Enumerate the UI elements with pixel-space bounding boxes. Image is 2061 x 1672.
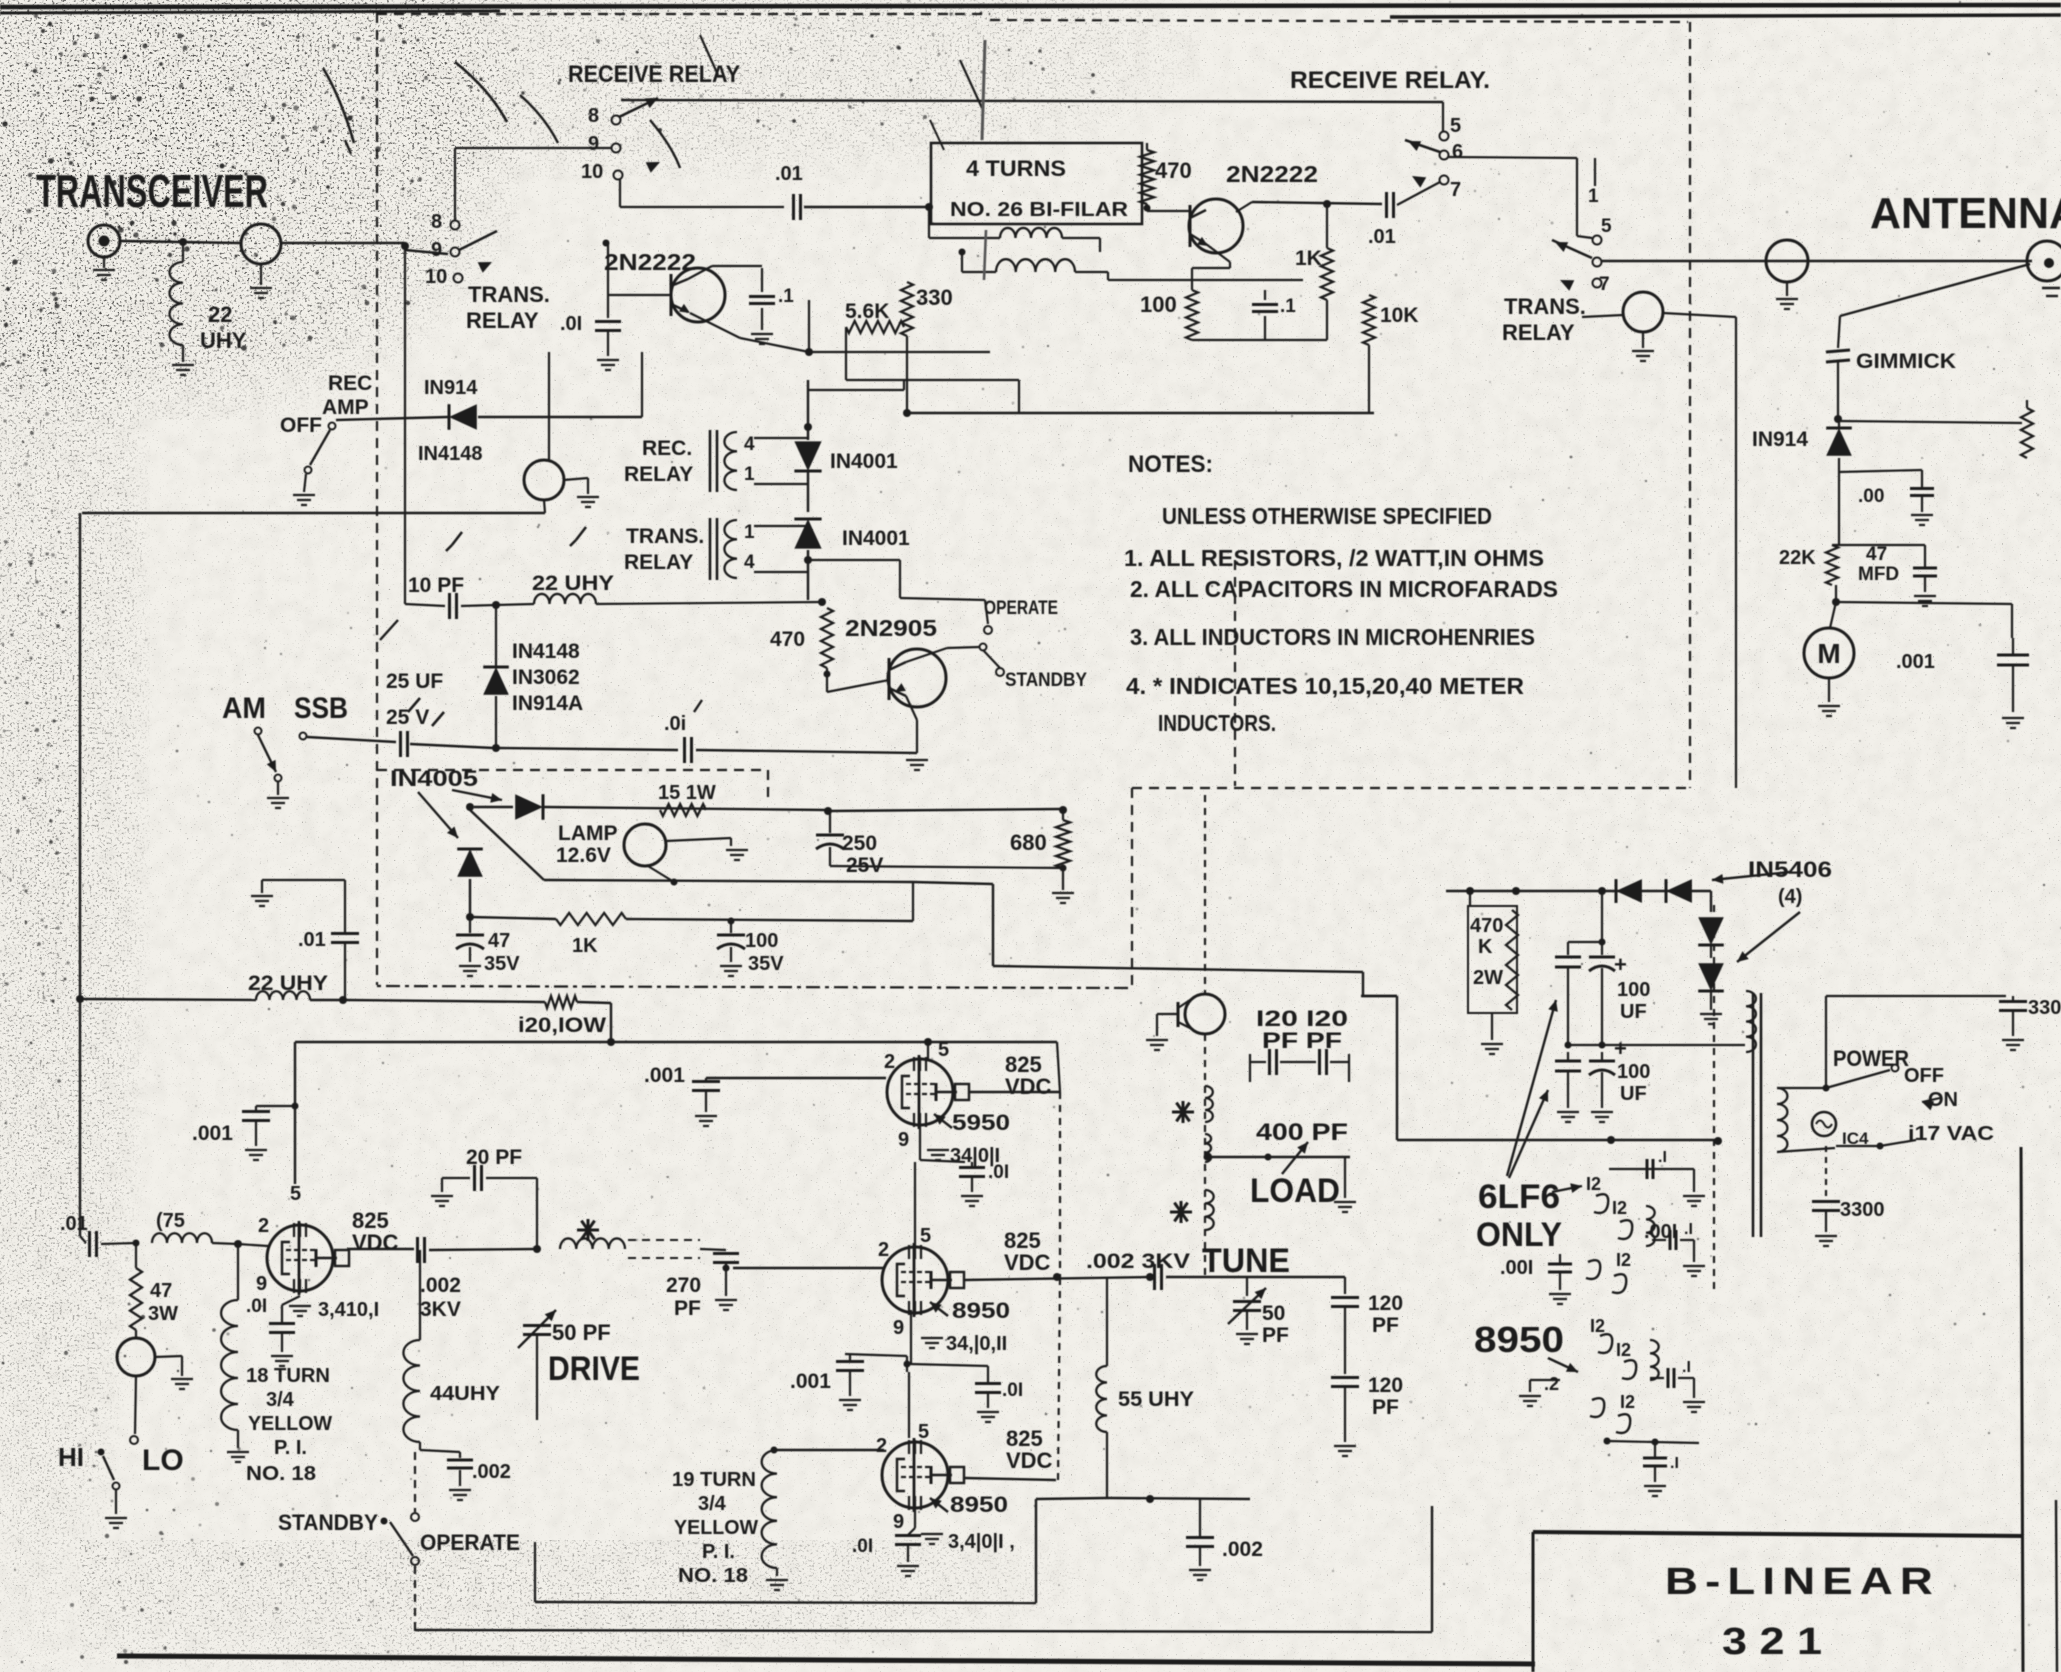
diagonal wire from node bbox=[470, 810, 544, 880]
scan speckle dots clusters bbox=[269, 22, 271, 24]
svg-text:120: 120 bbox=[1368, 1292, 1403, 1315]
wires linking relay coils to diodes bbox=[754, 437, 808, 439]
svg-text:INDUCTORS.: INDUCTORS. bbox=[1158, 710, 1276, 736]
ground of feedthrough bbox=[1786, 282, 1788, 296]
Q2 emitter wire down bbox=[1206, 244, 1230, 262]
wire into driver grid bbox=[238, 1244, 268, 1246]
fuse circle bbox=[1812, 1112, 1836, 1136]
arrow to lower diodes bbox=[1737, 912, 1800, 962]
resistor 100 base bias bbox=[1186, 290, 1198, 340]
svg-text:18 TURN: 18 TURN bbox=[246, 1365, 330, 1387]
cap right cluster bbox=[1669, 1230, 1672, 1250]
ground below 680 bbox=[1062, 868, 1064, 890]
ground 34101 driver bbox=[289, 1305, 311, 1307]
svg-text:+: + bbox=[1614, 952, 1627, 977]
svg-text:.I: .I bbox=[1658, 1149, 1667, 1166]
tube1 anode wire bbox=[969, 1091, 1060, 1093]
wire .01 cap to 4-turns node bbox=[804, 206, 929, 208]
svg-text:6: 6 bbox=[1452, 141, 1463, 163]
coil ticks 2 bbox=[1205, 1190, 1214, 1230]
page top border line bbox=[0, 5, 2061, 7]
node 10pf bbox=[492, 601, 500, 609]
ground below meter bbox=[1828, 678, 1830, 702]
svg-text:25 UF: 25 UF bbox=[386, 670, 443, 693]
ps top rail bbox=[1446, 890, 1711, 892]
antenna wire main bbox=[1602, 260, 2032, 262]
node junction on input wire bbox=[179, 238, 187, 246]
svg-text:IN914A: IN914A bbox=[512, 692, 583, 715]
meter M circle bbox=[1830, 602, 1836, 628]
svg-text:22K: 22K bbox=[1779, 547, 1816, 569]
node on collector wire bbox=[1323, 200, 1331, 208]
svg-text:4. * INDICATES 10,15,20,40 MET: 4. * INDICATES 10,15,20,40 METER bbox=[1126, 673, 1524, 699]
svg-text:3W: 3W bbox=[148, 1303, 178, 1325]
capacitor 50 PF drive variable bbox=[523, 1324, 551, 1327]
tube1 01 cap right bbox=[920, 1160, 965, 1162]
svg-text:AM: AM bbox=[222, 692, 266, 725]
check marks bbox=[452, 532, 462, 545]
arrow to diodes bbox=[1712, 872, 1790, 880]
svg-text:.0I: .0I bbox=[988, 1162, 1009, 1183]
svg-text:MFD: MFD bbox=[1858, 564, 1899, 585]
Q1 emitter wire to node bbox=[690, 313, 740, 338]
long wire to left rail bbox=[82, 512, 545, 514]
wire to .001 cap right bbox=[1836, 602, 2012, 604]
wire to operate contact bbox=[808, 559, 900, 561]
cap .1 bottom with ground bbox=[1643, 1457, 1667, 1460]
phono jack connector bbox=[241, 224, 281, 264]
svg-text:.001: .001 bbox=[192, 1122, 233, 1145]
diode stack vertical bbox=[1710, 891, 1712, 912]
vertical from power switch up bbox=[1825, 996, 1827, 1088]
socket cluster 8950 lower bbox=[1590, 1398, 1604, 1417]
ground of J1 bbox=[103, 257, 105, 268]
wire node down to 10PF row bbox=[404, 246, 406, 604]
arrow to vertical diode bbox=[418, 792, 458, 838]
svg-text:100: 100 bbox=[745, 930, 778, 952]
node at x405 bbox=[401, 242, 409, 250]
antenna relay arrow 7 bbox=[1560, 280, 1574, 291]
svg-text:8: 8 bbox=[588, 105, 599, 127]
wire input to coil bbox=[101, 1243, 136, 1244]
svg-text:5: 5 bbox=[920, 1225, 931, 1247]
diode 1N5406 a bbox=[1616, 879, 1642, 903]
svg-text:.001: .001 bbox=[644, 1064, 685, 1087]
svg-text:NO. 18: NO. 18 bbox=[678, 1565, 748, 1587]
svg-text:LAMP: LAMP bbox=[558, 822, 618, 845]
svg-text:.0I: .0I bbox=[852, 1536, 873, 1557]
svg-text:8950: 8950 bbox=[952, 1298, 1010, 1323]
power tube V4 bottom 8950 bbox=[882, 1442, 948, 1508]
svg-text:2: 2 bbox=[884, 1051, 895, 1073]
trans relay coil circle right bbox=[1623, 292, 1663, 332]
dashed enclosure box bottom edge left part bbox=[377, 986, 1132, 988]
svg-text:IN5406: IN5406 bbox=[1748, 857, 1832, 882]
resistor 470 second bbox=[821, 608, 833, 668]
svg-text:10: 10 bbox=[425, 266, 447, 288]
contact 7 arrow bbox=[1412, 176, 1426, 188]
svg-text:3 2 1: 3 2 1 bbox=[1722, 1621, 1822, 1663]
bracket to ground left bbox=[262, 879, 345, 881]
svg-text:OFF: OFF bbox=[280, 414, 322, 437]
svg-text:.002: .002 bbox=[1222, 1538, 1263, 1561]
svg-text:19 TURN: 19 TURN bbox=[672, 1469, 756, 1491]
svg-text:TRANSCEIVER: TRANSCEIVER bbox=[36, 165, 268, 217]
svg-text:120: 120 bbox=[1368, 1374, 1403, 1397]
power switch bbox=[1823, 1085, 1830, 1092]
diode 1N4001 lower bbox=[794, 519, 821, 549]
driver grid coil 18 turn bbox=[237, 1244, 239, 1300]
svg-text:PF PF: PF PF bbox=[1262, 1028, 1342, 1053]
svg-text:6LF6: 6LF6 bbox=[1478, 1178, 1560, 1216]
svg-text:TRANS.: TRANS. bbox=[626, 525, 704, 548]
svg-text:.002 3KV: .002 3KV bbox=[1086, 1250, 1190, 1273]
svg-text:OFF: OFF bbox=[1904, 1065, 1944, 1087]
load coil ticks bbox=[1205, 1086, 1213, 1122]
svg-text:47: 47 bbox=[150, 1280, 172, 1302]
svg-text:IN4001: IN4001 bbox=[842, 527, 910, 550]
inductor 44UHY bbox=[419, 1255, 421, 1340]
arrows 6lf6 bbox=[1507, 1000, 1556, 1176]
capacitor .001 driver screen bbox=[256, 1105, 295, 1107]
svg-text:.1: .1 bbox=[1280, 296, 1296, 317]
wire 1k right up to rail bbox=[912, 882, 914, 921]
wire contact 9 to left vertical bbox=[455, 147, 612, 149]
svg-text:5950: 5950 bbox=[952, 1110, 1010, 1135]
tube3 grid wire bbox=[774, 1449, 884, 1451]
svg-text:4: 4 bbox=[744, 434, 755, 455]
capacitors 120PF stack bbox=[1344, 1277, 1346, 1294]
svg-text:OPERATE: OPERATE bbox=[984, 598, 1058, 619]
cap .1 top cluster bbox=[1609, 1168, 1694, 1170]
dashed vertical through load coil bbox=[1204, 795, 1206, 995]
node below 22K bbox=[1835, 585, 1837, 602]
asterisk load 2 bbox=[1170, 1211, 1192, 1214]
tune wire junctions bbox=[1146, 1273, 1154, 1281]
svg-text:.00: .00 bbox=[1858, 486, 1884, 507]
contact 8 blade with arrow bbox=[619, 98, 658, 117]
svg-text:RELAY: RELAY bbox=[624, 463, 693, 486]
svg-text:400 PF: 400 PF bbox=[1256, 1119, 1348, 1146]
svg-text:3. ALL INDUCTORS IN MICROHENRI: 3. ALL INDUCTORS IN MICROHENRIES bbox=[1130, 624, 1535, 650]
svg-text:IN4001: IN4001 bbox=[830, 450, 898, 473]
Q3 collector to switch bbox=[906, 648, 947, 662]
svg-text:4: 4 bbox=[744, 552, 755, 573]
svg-text:I2: I2 bbox=[1616, 1340, 1631, 1360]
svg-text:2N2222: 2N2222 bbox=[1226, 161, 1318, 187]
ground at lamp bbox=[726, 849, 748, 851]
svg-text:1K: 1K bbox=[572, 935, 598, 957]
svg-text:5: 5 bbox=[918, 1421, 929, 1443]
svg-text:7: 7 bbox=[1450, 179, 1461, 201]
arrow check near diode bbox=[380, 620, 398, 640]
antenna switch diagonal blade bbox=[1840, 264, 2030, 316]
anode bus down to tune bbox=[1059, 1092, 1061, 1277]
page right border line bbox=[2021, 1147, 2023, 1672]
svg-text:9: 9 bbox=[588, 133, 599, 155]
svg-text:IN914: IN914 bbox=[424, 377, 478, 399]
wire J1 to junction bbox=[120, 241, 240, 243]
470K 2W bleeder box bbox=[1468, 906, 1517, 1013]
svg-text:I2: I2 bbox=[1586, 1174, 1601, 1194]
node after 002 bbox=[533, 1245, 541, 1253]
Q2 collector wire to relay bbox=[1236, 202, 1252, 212]
svg-text:.2: .2 bbox=[1544, 1374, 1559, 1394]
ground marks at antenna jack bbox=[2042, 287, 2060, 289]
ground of load cap bbox=[1344, 1157, 1346, 1198]
resistor 1K right bbox=[1321, 248, 1333, 300]
svg-text:IN4148: IN4148 bbox=[418, 443, 483, 465]
svg-text:.00I: .00I bbox=[1500, 1257, 1533, 1279]
inductor 55UHY bbox=[1106, 1277, 1108, 1366]
inductor 22 UHY input shunt bbox=[182, 242, 184, 262]
svg-text:9: 9 bbox=[893, 1511, 904, 1533]
svg-text:I2: I2 bbox=[1620, 1392, 1635, 1412]
junction dot at winding bbox=[959, 249, 966, 256]
contact 6 blade arrow bbox=[1405, 140, 1440, 152]
svg-text:22: 22 bbox=[208, 302, 232, 327]
svg-text:OPERATE: OPERATE bbox=[420, 1530, 520, 1555]
capacitor .002 below 44uhy bbox=[419, 1442, 421, 1450]
svg-text:9: 9 bbox=[898, 1129, 909, 1151]
lower bus wire y413 bbox=[905, 412, 1374, 414]
svg-text:ONLY: ONLY bbox=[1476, 1216, 1562, 1254]
capacitor 100 35V bbox=[717, 934, 745, 937]
svg-text:34,|0,II: 34,|0,II bbox=[946, 1333, 1007, 1355]
svg-text:i17 VAC: i17 VAC bbox=[1908, 1123, 1994, 1145]
wire contact 6 to antenna relay bbox=[1448, 157, 1577, 158]
svg-text:680: 680 bbox=[1010, 830, 1047, 855]
resistor 470 pullup bbox=[1146, 143, 1148, 150]
wire from tune net to bottom rail bbox=[1036, 1498, 1107, 1499]
svg-text:2: 2 bbox=[878, 1239, 889, 1261]
svg-text:P. I.: P. I. bbox=[702, 1541, 735, 1563]
lower rail of lamp box bbox=[544, 880, 913, 882]
dashed enclosure box bottom edge right part bbox=[1132, 787, 1690, 789]
vertical from bus to contact 5 bbox=[1442, 102, 1444, 131]
resistor 5.6K bbox=[846, 321, 904, 333]
cap 8950 right bbox=[1667, 1368, 1670, 1388]
Q3 emitter down bbox=[906, 696, 917, 720]
tube3 anode wire bbox=[964, 1478, 1056, 1480]
svg-text:.1: .1 bbox=[778, 286, 794, 307]
rec relay coil drive circle bbox=[524, 460, 564, 500]
tube3 cathode arrow ground bbox=[930, 1498, 948, 1512]
arrow 8950 bbox=[1548, 1358, 1578, 1372]
dashed enclosure box mid vertical bbox=[1131, 788, 1133, 988]
svg-text:47: 47 bbox=[488, 930, 510, 952]
left rail vertical bbox=[79, 513, 81, 999]
svg-text:3/4: 3/4 bbox=[698, 1493, 727, 1515]
svg-text:VDC: VDC bbox=[1006, 1448, 1053, 1473]
svg-text:PF: PF bbox=[1262, 1324, 1289, 1347]
svg-text:47: 47 bbox=[1866, 544, 1887, 565]
capacitor 3300 bottom bbox=[1825, 1146, 1827, 1196]
standby operate switch bottom bbox=[411, 1513, 419, 1521]
node before 4 turns box bbox=[925, 203, 933, 211]
wire 470 to 2N2222 base bbox=[1146, 204, 1148, 211]
interstage inductor bbox=[560, 1238, 625, 1249]
svg-text:270: 270 bbox=[666, 1274, 701, 1297]
wire .01 to contact 7 bbox=[1397, 182, 1440, 205]
svg-text:.I: .I bbox=[1670, 1455, 1679, 1472]
dashed enclosure box left edge bbox=[376, 13, 378, 985]
svg-text:GIMMICK: GIMMICK bbox=[1856, 350, 1956, 373]
svg-text:RELAY: RELAY bbox=[466, 308, 539, 333]
ground below Q3 emitter bbox=[906, 759, 928, 761]
rec relay coil symbol bbox=[709, 430, 712, 492]
dashed lamp box top edge bbox=[377, 769, 768, 771]
coax connector J1 transceiver bbox=[88, 225, 120, 257]
diode 1N4001 upper bbox=[794, 441, 821, 471]
svg-text:1K: 1K bbox=[1295, 247, 1322, 270]
resistor 680 bbox=[1056, 820, 1070, 868]
driver anode wire bbox=[347, 1248, 414, 1250]
scan smear streak above box bbox=[982, 40, 985, 140]
svg-text:YELLOW: YELLOW bbox=[248, 1413, 332, 1435]
svg-text:3300: 3300 bbox=[2028, 997, 2061, 1019]
fuse wire right bbox=[1836, 1145, 1880, 1147]
dashed vertical near load network bbox=[1234, 560, 1236, 786]
svg-text:100: 100 bbox=[1617, 1061, 1650, 1083]
svg-text:RELAY: RELAY bbox=[624, 551, 693, 574]
svg-text:NO. 26 BI-FILAR: NO. 26 BI-FILAR bbox=[950, 199, 1129, 221]
hv secondary winding bbox=[1746, 991, 1756, 1052]
svg-text:.0I: .0I bbox=[246, 1296, 267, 1317]
svg-text:ANTENNA: ANTENNA bbox=[1870, 189, 2061, 238]
svg-text:50: 50 bbox=[1262, 1302, 1285, 1325]
cluster lower coils bbox=[1586, 1260, 1600, 1279]
svg-text:8950: 8950 bbox=[1474, 1319, 1564, 1360]
transistor Q3 2N2905 bbox=[888, 649, 946, 707]
svg-text:REC: REC bbox=[328, 372, 372, 395]
node left lamp circuit bbox=[466, 803, 474, 811]
node 47uf bbox=[466, 913, 474, 921]
svg-text:5.6K: 5.6K bbox=[845, 300, 889, 323]
svg-text:DRIVE: DRIVE bbox=[548, 1350, 640, 1388]
svg-text:10: 10 bbox=[581, 161, 603, 183]
wire top right of diode bbox=[808, 389, 904, 391]
svg-text:UF: UF bbox=[1620, 1083, 1647, 1105]
resistor 330 bbox=[901, 282, 913, 336]
transistor Q1 2N2222 left bbox=[671, 268, 725, 322]
rail step right bbox=[913, 882, 993, 884]
antenna jack connector bbox=[2027, 241, 2061, 281]
svg-text:NOTES:: NOTES: bbox=[1128, 451, 1213, 478]
svg-text:1. ALL RESISTORS, /2 WATT,IN O: 1. ALL RESISTORS, /2 WATT,IN OHMS bbox=[1124, 545, 1544, 571]
primary winding bbox=[1777, 1088, 1787, 1152]
resistor 10K bbox=[1363, 295, 1375, 345]
svg-text:HI: HI bbox=[58, 1442, 84, 1472]
transformer core bbox=[1752, 993, 1755, 1237]
svg-text:9: 9 bbox=[431, 239, 442, 261]
ground below 470K bbox=[1491, 1013, 1493, 1040]
filter cap bank lower pair 100UF bbox=[1555, 1060, 1581, 1063]
svg-text:TRANS.: TRANS. bbox=[1504, 294, 1586, 319]
receive relay bus top wire bbox=[621, 100, 1443, 102]
svg-text:9: 9 bbox=[256, 1273, 267, 1295]
node below gimmick bbox=[1834, 415, 1842, 423]
tube2 anode wire to tune bbox=[964, 1277, 1150, 1280]
svg-text:VDC: VDC bbox=[352, 1230, 399, 1255]
dashed enclosure box right edge bbox=[1689, 22, 1691, 788]
svg-text:IN914: IN914 bbox=[1752, 428, 1808, 451]
lamp bottom lead bbox=[648, 866, 674, 882]
Q1 collector wire bbox=[688, 266, 712, 279]
svg-text:P. I.: P. I. bbox=[274, 1437, 307, 1459]
grounds below caps bbox=[1557, 1111, 1579, 1113]
svg-text:22 UHY: 22 UHY bbox=[532, 572, 614, 595]
svg-text:35V: 35V bbox=[484, 953, 520, 975]
svg-text:2N2905: 2N2905 bbox=[845, 615, 937, 641]
wire contact 8 up to receive relay bus bbox=[454, 148, 456, 221]
ground below HI LO bbox=[115, 1490, 117, 1514]
contact 10 arrow blade bbox=[646, 162, 660, 173]
resistor 47 3W bbox=[135, 1243, 137, 1268]
svg-text:15 1W: 15 1W bbox=[658, 782, 716, 804]
ground below relay coil bbox=[1642, 332, 1644, 348]
svg-text:2. ALL CAPACITORS IN MICROFARA: 2. ALL CAPACITORS IN MICROFARADS bbox=[1130, 576, 1558, 602]
ground below off switch bbox=[304, 474, 306, 492]
off switch blade bbox=[310, 430, 330, 465]
node at 250uf bbox=[824, 807, 832, 815]
svg-text:.01: .01 bbox=[298, 929, 326, 951]
svg-text:UHY: UHY bbox=[200, 328, 247, 353]
parasitic transistor circle bbox=[1185, 994, 1225, 1034]
dashed slug lines bbox=[628, 1239, 700, 1241]
svg-text:5: 5 bbox=[938, 1039, 949, 1061]
svg-text:IN3062: IN3062 bbox=[512, 666, 580, 689]
svg-text:3KV: 3KV bbox=[420, 1298, 461, 1321]
svg-text:.01: .01 bbox=[1368, 226, 1396, 248]
capacitor .1 second bbox=[1252, 303, 1278, 306]
tube1 grid wire bbox=[706, 1077, 886, 1079]
svg-text:3,410,I: 3,410,I bbox=[318, 1299, 379, 1321]
Q1 base cap .01 bbox=[603, 240, 610, 247]
rail corner down to .001 bbox=[294, 1042, 296, 1184]
rail to 3300 cap bbox=[1826, 995, 2006, 997]
svg-text:4 TURNS: 4 TURNS bbox=[966, 156, 1066, 181]
4 turns no.26 bi-filar transformer box bbox=[931, 143, 1142, 224]
svg-text:UF: UF bbox=[1620, 1001, 1647, 1023]
anode bus t3 up bbox=[1058, 1277, 1060, 1480]
svg-text:2: 2 bbox=[258, 1215, 269, 1237]
node after 22uhy bbox=[339, 996, 347, 1004]
svg-text:470: 470 bbox=[1470, 915, 1503, 937]
capacitor .002 bottom bbox=[1186, 1536, 1214, 1539]
svg-text:.001: .001 bbox=[790, 1370, 831, 1393]
svg-text:(4): (4) bbox=[1778, 886, 1802, 908]
wire segments around 330 bbox=[808, 300, 810, 352]
wire phono jack to relay node bbox=[281, 242, 405, 245]
capacitor .1 first bbox=[761, 268, 763, 292]
svg-text:3300: 3300 bbox=[1840, 1199, 1885, 1221]
svg-text:IN4148: IN4148 bbox=[512, 640, 580, 663]
svg-text:5: 5 bbox=[1450, 115, 1461, 137]
svg-text:.001: .001 bbox=[1896, 651, 1935, 673]
svg-text:+: + bbox=[1614, 1036, 1627, 1061]
svg-text:50 PF: 50 PF bbox=[552, 1320, 611, 1345]
resistor 1K lamp bbox=[556, 913, 626, 925]
bifilar winding 1 bbox=[1000, 228, 1062, 238]
coil 19 turn bbox=[762, 1450, 777, 1568]
svg-text:I2: I2 bbox=[1590, 1316, 1605, 1336]
long wire down right side bbox=[1735, 317, 1737, 788]
wire jack to LO contact bbox=[135, 1376, 136, 1434]
capacitor 250 25V bbox=[816, 834, 844, 837]
feedthrough connector circle bbox=[1766, 240, 1808, 282]
tube2 grid wire bbox=[733, 1267, 884, 1269]
